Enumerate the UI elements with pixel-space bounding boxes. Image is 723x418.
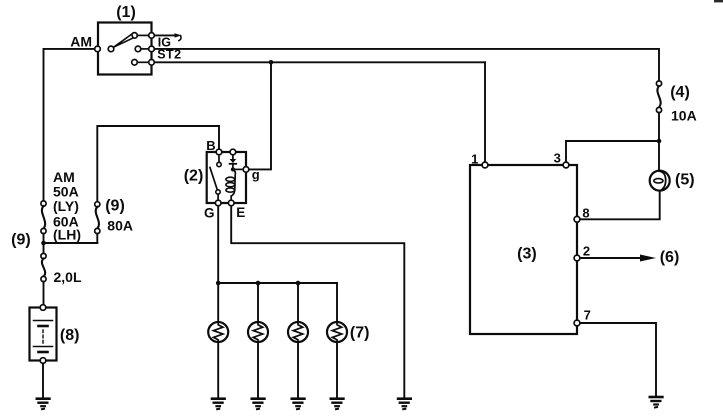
svg-text:E: E <box>236 205 245 220</box>
svg-text:2: 2 <box>583 244 590 259</box>
relay (2) box <box>207 152 246 203</box>
svg-text:10A: 10A <box>671 108 697 124</box>
wire fuse to junction <box>43 234 45 254</box>
svg-text:(7): (7) <box>350 325 370 342</box>
wire 80A joins main <box>44 242 98 244</box>
pin 3 <box>563 162 569 168</box>
wire junction down to relay g <box>249 62 271 169</box>
node coil-top / g junction <box>231 167 235 171</box>
svg-text:80A: 80A <box>107 218 133 234</box>
lamp 4 of (7) <box>327 283 347 409</box>
relay diode <box>232 155 234 159</box>
svg-text:(LH): (LH) <box>53 227 81 243</box>
node junction 80A joins <box>41 241 46 246</box>
svg-text:3: 3 <box>554 150 561 165</box>
svg-text:7: 7 <box>584 308 591 323</box>
svg-text:8: 8 <box>582 205 589 220</box>
wire IG stub with hook <box>152 34 176 36</box>
relay terminal B <box>216 149 222 155</box>
ground E-line <box>397 399 412 410</box>
fuse (4) 10A <box>656 81 661 86</box>
node bus-lamp3 <box>296 281 301 286</box>
lamp 2 of (7) <box>248 283 268 409</box>
pin 8 <box>574 216 580 222</box>
wire relay G to lamp bus <box>217 206 219 283</box>
lamp bus <box>218 282 337 284</box>
wire ST2 down to pin 1 <box>484 62 486 162</box>
pin 7 <box>574 320 580 326</box>
battery (8) box <box>30 308 57 361</box>
svg-text:1: 1 <box>471 151 478 166</box>
svg-text:(5): (5) <box>675 172 695 189</box>
ignition switch (1) box <box>98 23 152 75</box>
svg-text:ST2: ST2 <box>157 48 181 62</box>
svg-text:(9): (9) <box>105 198 125 215</box>
switch inner contacts <box>108 46 114 52</box>
relay coil <box>231 169 235 196</box>
pin 2 <box>574 255 580 261</box>
scan mark top right <box>714 0 723 2</box>
relay terminal g <box>243 167 249 173</box>
svg-text:g: g <box>252 167 260 182</box>
relay contact upper <box>218 155 220 163</box>
battery terminal bottom <box>40 358 46 364</box>
fusible link 2,0L: circles and S-element <box>41 253 46 258</box>
switch blade <box>114 34 133 47</box>
lamp 3 of (7) <box>288 283 308 409</box>
relay terminal G <box>215 200 221 206</box>
wire pin 3 up and right to fuse line <box>566 141 659 162</box>
fuse (9) AM left: circles and S-element <box>41 201 46 206</box>
svg-text:AM: AM <box>70 33 92 49</box>
lamp 1 of (7) <box>208 283 228 409</box>
wire ST2 row <box>152 61 486 63</box>
wire AM from switch left to left vertical <box>44 49 98 201</box>
wire relay E to right ground <box>231 206 404 398</box>
svg-text:(6): (6) <box>660 249 680 266</box>
svg-text:2,0L: 2,0L <box>54 269 82 285</box>
wire to battery <box>43 282 45 305</box>
node fuse-line junction <box>657 139 662 144</box>
wire IG row to fuse (4) <box>152 49 660 81</box>
box (3) <box>470 165 577 334</box>
svg-text:(9): (9) <box>11 231 31 248</box>
lamp (5) <box>650 171 670 191</box>
wire pin 7 to right ground <box>580 323 656 396</box>
battery terminal top <box>40 305 46 311</box>
pin 1 <box>482 162 488 168</box>
node junction on ST2 <box>269 60 274 65</box>
switch terminal AM <box>95 46 101 52</box>
svg-text:(3): (3) <box>517 245 537 262</box>
svg-text:(2): (2) <box>184 167 204 184</box>
switch edge terminals <box>149 33 155 39</box>
wire 80A branch top <box>97 126 219 202</box>
relay switch arm <box>210 168 217 191</box>
wire lamp (5) to pin 8 <box>580 190 660 219</box>
wire pin 2 arrow to (6) <box>580 257 640 259</box>
ground right <box>649 397 664 408</box>
svg-text:B: B <box>206 138 215 153</box>
node bus-lamp2 <box>256 281 261 286</box>
switch wires inner <box>137 34 148 36</box>
svg-text:(LY): (LY) <box>53 198 79 214</box>
relay terminal coil-top <box>230 149 236 155</box>
svg-text:AM: AM <box>53 169 75 185</box>
svg-text:(4): (4) <box>670 84 690 101</box>
fuse (9) 80A: circles and S-element <box>95 202 100 207</box>
node bus-lamp1 <box>216 281 221 286</box>
svg-text:(1): (1) <box>116 4 136 21</box>
ground battery <box>36 399 51 410</box>
relay terminal E <box>228 200 234 206</box>
svg-text:(8): (8) <box>60 327 80 344</box>
wire fuse (4) down to lamp (5) <box>658 113 660 171</box>
wire battery to ground <box>42 363 44 398</box>
svg-text:G: G <box>204 206 215 221</box>
wire 80A fuse bottom <box>96 234 98 243</box>
battery plates <box>34 320 53 322</box>
